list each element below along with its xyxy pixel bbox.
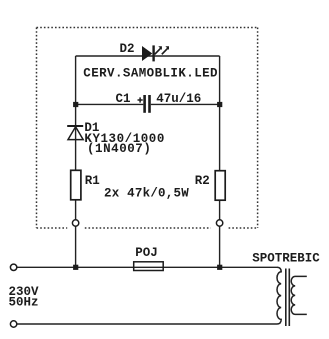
terminal circle left branch [72, 220, 78, 226]
transformer core [286, 269, 290, 327]
svg-text:POJ: POJ [135, 246, 158, 260]
LED D2 [142, 45, 169, 61]
fuse POJ [134, 262, 164, 271]
wire left vertical [75, 56, 77, 267]
junction C1 right [217, 102, 222, 107]
capacitor C1 [138, 95, 150, 113]
svg-text:2x 47k/0,5W: 2x 47k/0,5W [104, 187, 189, 201]
svg-text:R2: R2 [195, 174, 210, 188]
dotted enclosure box [37, 28, 258, 229]
wire AC bottom [17, 323, 277, 325]
junction AC right [217, 265, 222, 270]
svg-text:C1: C1 [116, 92, 131, 106]
junction AC left [73, 265, 78, 270]
svg-text:R1: R1 [85, 174, 100, 188]
transformer secondary winding [291, 276, 307, 314]
wire C1 horizontal [76, 103, 220, 105]
resistor R2 [215, 171, 225, 201]
svg-text:(1N4007): (1N4007) [87, 142, 151, 156]
junction C1 left [73, 102, 78, 107]
svg-text:50Hz: 50Hz [9, 296, 39, 310]
svg-text:47u/16: 47u/16 [156, 92, 201, 106]
terminal circle AC bottom [10, 321, 16, 327]
terminal circle right branch [216, 220, 222, 226]
wire AC top [17, 266, 277, 268]
wire top loop [76, 55, 220, 57]
terminal circle AC top [10, 264, 16, 270]
wire right vertical [219, 56, 221, 267]
transformer primary winding [277, 267, 281, 324]
svg-text:CERV.SAMOBLIK.LED: CERV.SAMOBLIK.LED [83, 67, 218, 81]
resistor R1 [71, 170, 81, 200]
svg-text:D2: D2 [120, 42, 135, 56]
svg-text:SPOTREBIC: SPOTREBIC [252, 252, 320, 266]
diode D1 [67, 126, 83, 140]
